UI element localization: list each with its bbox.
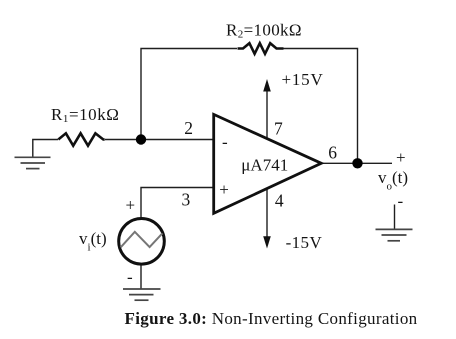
- svg-text:2: 2: [184, 118, 193, 138]
- svg-text:R1=10kΩ: R1=10kΩ: [51, 105, 119, 125]
- svg-text:vi(t): vi(t): [79, 229, 107, 254]
- svg-text:3: 3: [182, 189, 191, 209]
- svg-text:+: +: [219, 180, 229, 199]
- svg-text:Figure 3.0: Non-Inverting Conf: Figure 3.0: Non-Inverting Configuration: [125, 309, 418, 328]
- svg-text:vo(t): vo(t): [378, 168, 408, 193]
- svg-text:μA741: μA741: [241, 156, 288, 175]
- svg-text:R2=100kΩ: R2=100kΩ: [226, 20, 302, 40]
- svg-text:-15V: -15V: [286, 233, 323, 252]
- svg-text:6: 6: [328, 143, 337, 163]
- svg-text:-: -: [398, 192, 404, 211]
- svg-text:+15V: +15V: [282, 70, 324, 89]
- svg-text:4: 4: [275, 191, 284, 211]
- svg-text:-: -: [127, 268, 133, 287]
- svg-text:+: +: [126, 196, 136, 215]
- svg-text:7: 7: [274, 118, 283, 138]
- svg-text:-: -: [222, 133, 228, 152]
- svg-text:+: +: [396, 148, 406, 167]
